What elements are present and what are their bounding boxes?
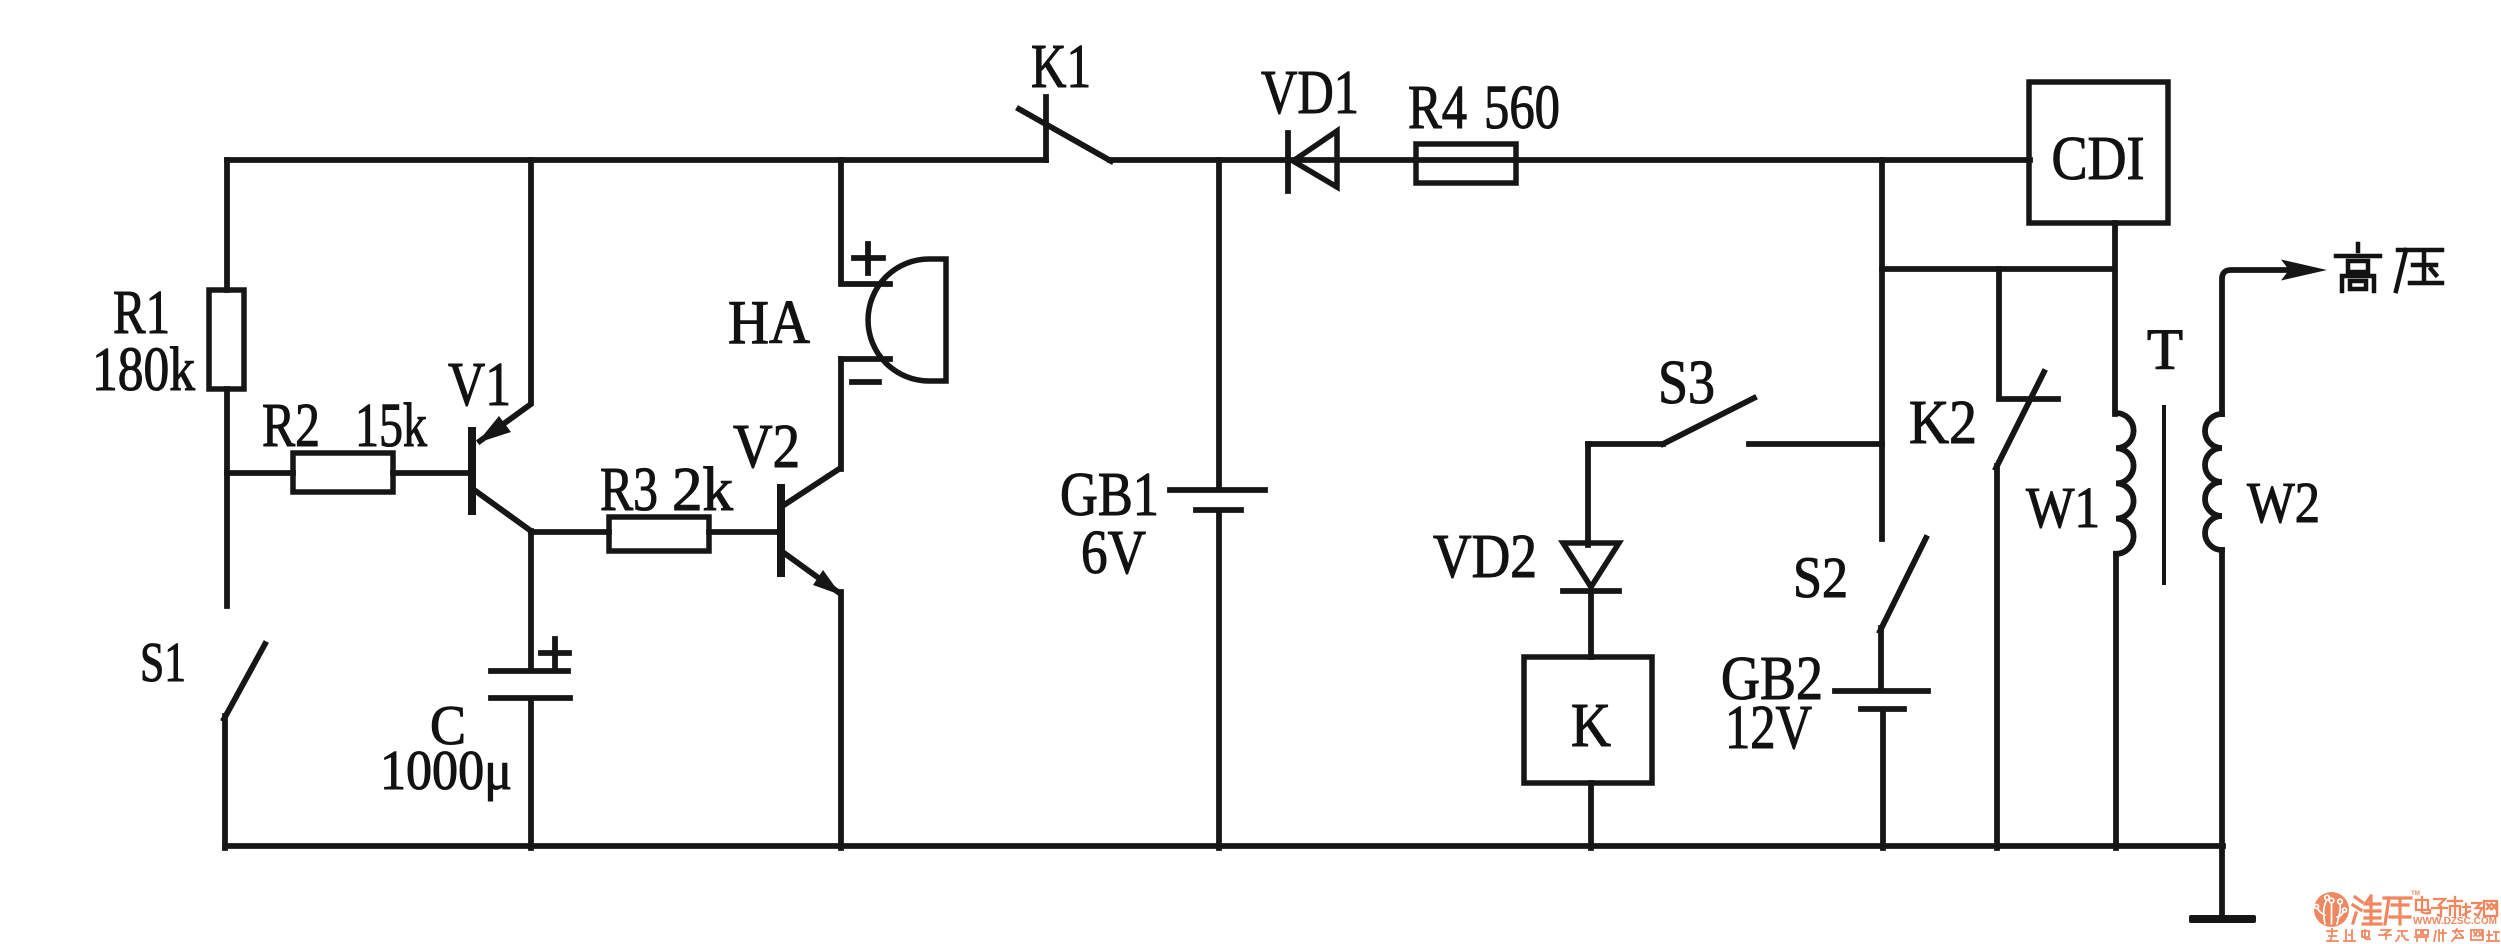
svg-text:T: T [2147,317,2183,382]
resistor R1 [209,290,244,389]
wire S3 to VD2 [1585,444,1591,545]
transformer winding W2 [2205,414,2222,916]
switch S2 [1880,538,1926,689]
svg-text:2k: 2k [672,456,733,524]
wire top rail right segment [1110,157,2030,163]
svg-text:VD1: VD1 [1261,59,1359,127]
wire V2 emitter down to bottom rail [838,592,844,848]
svg-text:S3: S3 [1658,349,1715,417]
svg-text:K2: K2 [1909,389,1977,457]
wire node to R3 [531,529,609,535]
wire base branch to R2 [227,470,293,476]
wire W2 top to high-voltage arrow [2222,270,2293,414]
wire R1 to S1 upper contact [224,389,230,606]
svg-text:S2: S2 [1793,545,1848,610]
ground [2189,915,2256,923]
wire R3 to V2 base [709,529,778,535]
svg-text:V2: V2 [733,413,800,481]
svg-text:CDI: CDI [2052,125,2145,193]
transformer core [2162,407,2166,583]
wire V2 collector up to buzzer minus [838,359,844,469]
capacitor plus mark [541,639,569,667]
svg-text:K1: K1 [1031,33,1091,101]
wire buzzer plus from top rail [841,160,890,284]
battery GB2 [1835,691,1928,848]
svg-text:S1: S1 [140,632,186,694]
buzzer plus mark [854,244,883,273]
resistor R4 [1416,144,1516,183]
wire bottom rail [225,843,2223,849]
watermark slogan characters [2327,929,2499,941]
svg-text:V1: V1 [448,351,511,419]
capacitor C [491,671,570,848]
transistor V2 [781,469,841,595]
wire V1 collector node down to capacitor [528,531,534,669]
switch K1 [1019,97,1111,161]
svg-text:R3: R3 [600,456,658,524]
diode VD1 [1288,131,1337,191]
diode VD2 [1563,543,1619,657]
relay K box [1524,657,1652,783]
switch K2 [1996,269,2058,848]
svg-text:W1: W1 [2026,475,2100,540]
wire CDI bottom to W1 [2112,223,2118,414]
resistor R2 [293,453,393,492]
svg-text:6V: 6V [1081,519,1146,587]
svg-text:12V: 12V [1725,694,1812,762]
wire GB1 branch from top rail [1216,160,1222,488]
wire top rail left segment [227,157,1046,163]
wire R2 to V1 base [393,470,468,476]
transformer T winding W1 [2116,413,2134,848]
resistor R3 [609,517,709,551]
switch S1 [224,644,265,848]
watermark logo circle [2314,892,2349,927]
label gao-ya (high voltage) [2336,244,2442,291]
svg-text:TM: TM [2411,890,2420,897]
svg-text:HA: HA [728,289,810,357]
wire second rail [1882,266,2113,272]
wire right branch from top rail down to S2 [1879,160,1885,539]
svg-text:WWW.DZSC.COM: WWW.DZSC.COM [2413,916,2497,927]
svg-text:R4: R4 [1408,74,1467,142]
svg-text:K: K [1571,692,1611,760]
battery GB1 [1170,490,1265,848]
svg-text:15k: 15k [355,392,427,460]
transistor V1 [472,160,531,531]
svg-text:560: 560 [1484,74,1560,142]
buzzer minus mark [852,379,879,385]
watermark dianzishichangwang characters [2416,897,2497,917]
svg-text:1000μ: 1000μ [380,740,512,802]
wire K to bottom rail [1588,783,1594,848]
buzzer HA dome [868,259,946,381]
CDI box [2029,82,2168,223]
svg-text:VD2: VD2 [1433,523,1537,591]
svg-text:W2: W2 [2247,470,2320,535]
wire S3 right contact to branch [1749,441,1882,447]
switch S3 [1588,398,1754,444]
svg-text:R2: R2 [262,392,320,460]
wire buzzer minus terminal [841,356,890,362]
wire left branch top (node to R1) [224,160,230,290]
watermark weiku characters [2353,896,2411,924]
svg-text:180k: 180k [92,336,195,404]
high-voltage arrowhead [2281,260,2327,281]
